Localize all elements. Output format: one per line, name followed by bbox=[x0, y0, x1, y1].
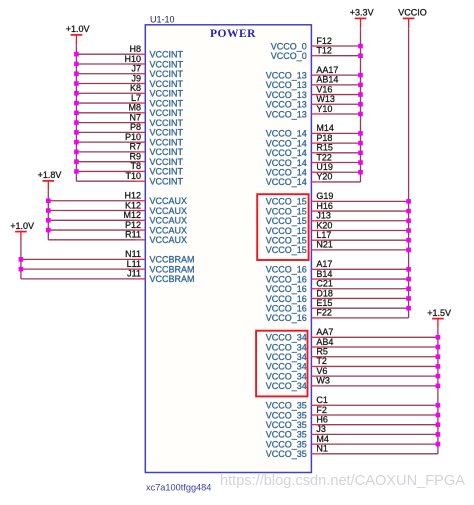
junction node H6 bbox=[436, 422, 441, 427]
junction node V16 bbox=[358, 92, 363, 97]
pin F22 / VCCO_16 wire bbox=[266, 308, 409, 324]
svg-text:VCCINT: VCCINT bbox=[150, 59, 184, 69]
svg-text:VCCAUX: VCCAUX bbox=[150, 225, 188, 235]
pin H12 / VCCAUX wire bbox=[48, 191, 187, 207]
pin K20 / VCCO_15 wire bbox=[266, 220, 409, 236]
svg-text:VCCO_34: VCCO_34 bbox=[266, 371, 307, 381]
svg-text:Y20: Y20 bbox=[316, 172, 332, 182]
svg-text:VCCO_13: VCCO_13 bbox=[266, 90, 307, 100]
junction node C21 bbox=[406, 286, 411, 291]
junction node R7 bbox=[74, 150, 79, 155]
svg-text:U1-10: U1-10 bbox=[150, 15, 175, 25]
svg-text:VCCINT: VCCINT bbox=[150, 69, 184, 79]
svg-text:H8: H8 bbox=[129, 44, 141, 54]
svg-text:VCCO_35: VCCO_35 bbox=[266, 439, 307, 449]
svg-text:AA7: AA7 bbox=[316, 327, 333, 337]
pin P10 / VCCINT wire bbox=[76, 132, 183, 148]
svg-text:L11: L11 bbox=[127, 259, 141, 269]
svg-text:VCCO_35: VCCO_35 bbox=[266, 449, 307, 459]
svg-text:VCCAUX: VCCAUX bbox=[150, 216, 188, 226]
svg-text:VCCO_35: VCCO_35 bbox=[266, 410, 307, 420]
svg-text:VCCO_16: VCCO_16 bbox=[266, 294, 307, 304]
svg-text:VCCO_0: VCCO_0 bbox=[271, 41, 307, 51]
pin T10 / VCCINT wire bbox=[76, 171, 183, 187]
pin AB4 / VCCO_34 wire bbox=[266, 337, 438, 353]
svg-text:M12: M12 bbox=[123, 210, 141, 220]
svg-text:+1.0V: +1.0V bbox=[66, 24, 90, 34]
pin J13 / VCCO_15 wire bbox=[266, 211, 409, 227]
svg-text:P8: P8 bbox=[130, 122, 141, 132]
svg-text:K20: K20 bbox=[316, 220, 332, 230]
svg-text:POWER: POWER bbox=[210, 28, 256, 40]
pin F2 / VCCO_35 wire bbox=[266, 405, 438, 421]
svg-text:+3.3V: +3.3V bbox=[350, 8, 374, 18]
pin R9 / VCCINT wire bbox=[76, 151, 183, 167]
svg-text:Y10: Y10 bbox=[316, 104, 332, 114]
junction node B14 bbox=[406, 277, 411, 282]
pin A17 / VCCO_16 wire bbox=[266, 259, 409, 275]
junction node F12 bbox=[358, 44, 363, 49]
pin R15 / VCCO_14 wire bbox=[266, 143, 361, 159]
junction node G19 bbox=[406, 199, 411, 204]
svg-text:T10: T10 bbox=[125, 171, 141, 181]
junction node Y10 bbox=[358, 112, 363, 117]
junction node J3 bbox=[436, 432, 441, 437]
pin V16 / VCCO_13 wire bbox=[266, 84, 361, 100]
junction node J13 bbox=[406, 218, 411, 223]
svg-text:AA17: AA17 bbox=[316, 65, 338, 75]
svg-text:V16: V16 bbox=[316, 84, 332, 94]
svg-text:R15: R15 bbox=[316, 143, 333, 153]
pin C21 / VCCO_16 wire bbox=[266, 279, 409, 295]
junction node A17 bbox=[406, 267, 411, 272]
svg-text:F22: F22 bbox=[316, 308, 332, 318]
svg-text:VCCO_15: VCCO_15 bbox=[266, 226, 307, 236]
pin R5 / VCCO_34 wire bbox=[266, 347, 438, 363]
pin H6 / VCCO_35 wire bbox=[266, 414, 438, 430]
svg-text:F2: F2 bbox=[316, 405, 327, 415]
svg-text:VCCO_35: VCCO_35 bbox=[266, 401, 307, 411]
junction node E15 bbox=[406, 306, 411, 311]
pin T22 / VCCO_14 wire bbox=[266, 152, 361, 168]
pin N21 / VCCO_15 wire bbox=[266, 240, 409, 256]
svg-text:N7: N7 bbox=[129, 112, 141, 122]
svg-text:+1.0V: +1.0V bbox=[10, 221, 34, 231]
net rail +1.0V vertical wire bbox=[75, 45, 77, 182]
title POWER bbox=[210, 28, 256, 40]
pin H16 / VCCO_15 wire bbox=[266, 201, 409, 217]
svg-text:VCCO_16: VCCO_16 bbox=[266, 265, 307, 275]
svg-text:https://blog.csdn.net/CAOXUN_F: https://blog.csdn.net/CAOXUN_FPGA bbox=[220, 473, 465, 489]
junction node C1 bbox=[436, 403, 441, 408]
pin N7 / VCCINT wire bbox=[76, 112, 183, 128]
svg-text:VCCO_16: VCCO_16 bbox=[266, 313, 307, 323]
svg-text:+1.5V: +1.5V bbox=[427, 308, 451, 318]
pin U19 / VCCO_14 wire bbox=[266, 162, 361, 178]
junction node H8 bbox=[74, 52, 79, 57]
pin T12 / VCCO_0 wire bbox=[271, 46, 361, 62]
pin Y10 / VCCO_13 wire bbox=[266, 104, 361, 120]
junction node H10 bbox=[74, 62, 79, 67]
svg-text:VCCO_14: VCCO_14 bbox=[266, 129, 307, 139]
svg-text:VCCO_0: VCCO_0 bbox=[271, 51, 307, 61]
IC U1 body (POWER section, xc7a100tfgg484) bbox=[145, 25, 311, 473]
power +1.5V bbox=[427, 308, 451, 329]
svg-text:J13: J13 bbox=[316, 211, 331, 221]
junction node W13 bbox=[358, 102, 363, 107]
pin J7 / VCCINT wire bbox=[76, 64, 183, 80]
svg-text:N11: N11 bbox=[125, 249, 141, 259]
svg-text:VCCIO: VCCIO bbox=[398, 8, 427, 18]
watermark bbox=[220, 473, 465, 489]
svg-text:T12: T12 bbox=[316, 46, 332, 56]
svg-text:VCCO_34: VCCO_34 bbox=[266, 352, 307, 362]
junction node M14 bbox=[358, 131, 363, 136]
svg-text:T2: T2 bbox=[316, 356, 327, 366]
net rail VCCIO vertical wire bbox=[408, 28, 410, 318]
pin T2 / VCCO_34 wire bbox=[266, 356, 438, 372]
pin AA17 / VCCO_13 wire bbox=[266, 65, 361, 81]
svg-text:K8: K8 bbox=[130, 83, 141, 93]
pin B14 / VCCO_16 wire bbox=[266, 269, 409, 285]
designator U1-10 bbox=[150, 15, 175, 25]
svg-text:VCCINT: VCCINT bbox=[150, 177, 184, 187]
junction node L7 bbox=[74, 101, 79, 106]
power +1.0V (VCCBRAM) bbox=[10, 221, 34, 242]
svg-text:+1.8V: +1.8V bbox=[38, 170, 62, 180]
svg-text:VCCO_16: VCCO_16 bbox=[266, 284, 307, 294]
svg-text:VCCO_14: VCCO_14 bbox=[266, 158, 307, 168]
svg-text:A17: A17 bbox=[316, 259, 332, 269]
pin J9 / VCCINT wire bbox=[76, 73, 183, 89]
junction node L11 bbox=[19, 267, 24, 272]
highlight box VCCO_34 bbox=[256, 331, 307, 397]
svg-text:VCCINT: VCCINT bbox=[150, 50, 184, 60]
svg-text:VCCO_15: VCCO_15 bbox=[266, 206, 307, 216]
pin C1 / VCCO_35 wire bbox=[266, 395, 438, 411]
svg-text:VCCO_16: VCCO_16 bbox=[266, 303, 307, 313]
svg-text:C1: C1 bbox=[316, 395, 328, 405]
pin R7 / VCCINT wire bbox=[76, 142, 183, 158]
pin H8 / VCCINT wire bbox=[76, 44, 183, 60]
svg-text:H12: H12 bbox=[124, 191, 141, 201]
svg-text:VCCO_35: VCCO_35 bbox=[266, 430, 307, 440]
junction node AA7 bbox=[436, 335, 441, 340]
svg-text:U19: U19 bbox=[316, 162, 333, 172]
junction node T12 bbox=[358, 53, 363, 58]
pin W3 / VCCO_34 wire bbox=[266, 376, 438, 392]
svg-text:T22: T22 bbox=[316, 152, 332, 162]
pin L11 / VCCBRAM wire bbox=[21, 259, 195, 275]
pin M8 / VCCINT wire bbox=[76, 103, 183, 119]
svg-text:VCCINT: VCCINT bbox=[150, 79, 184, 89]
net rail +1.0V VCCBRAM vertical wire bbox=[20, 241, 22, 279]
svg-text:W3: W3 bbox=[316, 376, 330, 386]
svg-text:F12: F12 bbox=[316, 36, 332, 46]
net rail +3.3V vertical wire bbox=[360, 28, 362, 182]
junction node K8 bbox=[74, 91, 79, 96]
pin E15 / VCCO_16 wire bbox=[266, 298, 409, 314]
svg-text:T8: T8 bbox=[130, 161, 141, 171]
svg-text:W13: W13 bbox=[316, 94, 335, 104]
svg-text:VCCO_34: VCCO_34 bbox=[266, 342, 307, 352]
pin T8 / VCCINT wire bbox=[76, 161, 183, 177]
svg-text:AB4: AB4 bbox=[316, 337, 333, 347]
junction node H12 bbox=[46, 198, 51, 203]
svg-text:VCCINT: VCCINT bbox=[150, 108, 184, 118]
highlight box VCCO_15 bbox=[257, 194, 308, 260]
junction node M4 bbox=[436, 442, 441, 447]
pin K8 / VCCINT wire bbox=[76, 83, 183, 99]
svg-text:V6: V6 bbox=[316, 366, 327, 376]
svg-text:B14: B14 bbox=[316, 269, 332, 279]
junction node T2 bbox=[436, 364, 441, 369]
junction node V6 bbox=[436, 374, 441, 379]
svg-text:VCCAUX: VCCAUX bbox=[150, 235, 188, 245]
pin N11 / VCCBRAM wire bbox=[21, 249, 195, 265]
svg-text:H10: H10 bbox=[124, 54, 141, 64]
pin G19 / VCCO_15 wire bbox=[266, 191, 409, 207]
svg-text:C21: C21 bbox=[316, 279, 333, 289]
junction node AA17 bbox=[358, 73, 363, 78]
pin P12 / VCCAUX wire bbox=[48, 220, 187, 236]
power +1.8V (VCCAUX) bbox=[38, 170, 62, 191]
svg-text:VCCBRAM: VCCBRAM bbox=[150, 274, 195, 284]
pin P8 / VCCINT wire bbox=[76, 122, 183, 138]
pin F12 / VCCO_0 wire bbox=[271, 36, 361, 52]
svg-text:N1: N1 bbox=[316, 444, 328, 454]
svg-text:E15: E15 bbox=[316, 298, 332, 308]
svg-text:VCCINT: VCCINT bbox=[150, 89, 184, 99]
pin M14 / VCCO_14 wire bbox=[266, 123, 361, 139]
svg-text:VCCO_34: VCCO_34 bbox=[266, 362, 307, 372]
svg-text:VCCO_35: VCCO_35 bbox=[266, 420, 307, 430]
junction node K12 bbox=[46, 208, 51, 213]
value xc7a100tfgg484 bbox=[146, 483, 211, 493]
junction node N11 bbox=[19, 257, 24, 262]
junction node N21 bbox=[406, 248, 411, 253]
svg-text:M8: M8 bbox=[128, 103, 141, 113]
svg-text:xc7a100tfgg484: xc7a100tfgg484 bbox=[146, 483, 211, 493]
svg-text:VCCO_13: VCCO_13 bbox=[266, 100, 307, 110]
svg-text:VCCO_15: VCCO_15 bbox=[266, 245, 307, 255]
svg-text:P12: P12 bbox=[125, 220, 141, 230]
svg-text:VCCBRAM: VCCBRAM bbox=[150, 255, 195, 265]
pin L7 / VCCINT wire bbox=[76, 93, 183, 109]
junction node P12 bbox=[46, 228, 51, 233]
junction node D18 bbox=[406, 296, 411, 301]
svg-text:VCCO_15: VCCO_15 bbox=[266, 197, 307, 207]
svg-text:VCCO_15: VCCO_15 bbox=[266, 236, 307, 246]
junction node N7 bbox=[74, 120, 79, 125]
junction node P10 bbox=[74, 140, 79, 145]
junction node K20 bbox=[406, 228, 411, 233]
junction node P18 bbox=[358, 141, 363, 146]
junction node U19 bbox=[358, 170, 363, 175]
junction node T22 bbox=[358, 160, 363, 165]
svg-text:VCCINT: VCCINT bbox=[150, 118, 184, 128]
pin W13 / VCCO_13 wire bbox=[266, 94, 361, 110]
power VCCIO bbox=[398, 8, 427, 29]
pin D18 / VCCO_16 wire bbox=[266, 288, 409, 304]
svg-text:VCCO_14: VCCO_14 bbox=[266, 177, 307, 187]
svg-text:P18: P18 bbox=[316, 133, 332, 143]
junction node AB4 bbox=[436, 345, 441, 350]
svg-text:J11: J11 bbox=[127, 269, 141, 279]
svg-text:VCCAUX: VCCAUX bbox=[150, 196, 188, 206]
junction node W3 bbox=[436, 384, 441, 389]
svg-text:VCCO_13: VCCO_13 bbox=[266, 109, 307, 119]
svg-text:VCCO_14: VCCO_14 bbox=[266, 148, 307, 158]
pin R11 / VCCAUX wire bbox=[48, 230, 187, 246]
svg-text:VCCO_34: VCCO_34 bbox=[266, 333, 307, 343]
svg-text:M14: M14 bbox=[316, 123, 334, 133]
svg-text:J7: J7 bbox=[131, 64, 141, 74]
svg-text:P10: P10 bbox=[125, 132, 141, 142]
svg-text:L17: L17 bbox=[316, 230, 331, 240]
svg-text:R9: R9 bbox=[129, 151, 141, 161]
svg-text:VCCINT: VCCINT bbox=[150, 128, 184, 138]
svg-text:VCCINT: VCCINT bbox=[150, 147, 184, 157]
pin J3 / VCCO_35 wire bbox=[266, 424, 438, 440]
svg-text:R11: R11 bbox=[125, 230, 141, 240]
junction node F2 bbox=[436, 413, 441, 418]
svg-text:J9: J9 bbox=[131, 73, 141, 83]
svg-text:L7: L7 bbox=[131, 93, 141, 103]
svg-text:K12: K12 bbox=[125, 200, 141, 210]
pin P18 / VCCO_14 wire bbox=[266, 133, 361, 149]
svg-text:R5: R5 bbox=[316, 347, 328, 357]
junction node AB14 bbox=[358, 83, 363, 88]
svg-text:VCCBRAM: VCCBRAM bbox=[150, 264, 195, 274]
svg-text:VCCO_15: VCCO_15 bbox=[266, 216, 307, 226]
svg-text:VCCO_14: VCCO_14 bbox=[266, 168, 307, 178]
svg-text:H6: H6 bbox=[316, 414, 328, 424]
pin M12 / VCCAUX wire bbox=[48, 210, 187, 226]
pin M4 / VCCO_35 wire bbox=[266, 434, 438, 450]
pin N1 / VCCO_35 wire bbox=[266, 444, 438, 460]
svg-text:H16: H16 bbox=[316, 201, 333, 211]
pin AA7 / VCCO_34 wire bbox=[266, 327, 438, 343]
pin AB14 / VCCO_13 wire bbox=[266, 75, 361, 91]
pin V6 / VCCO_34 wire bbox=[266, 366, 438, 382]
svg-text:VCCINT: VCCINT bbox=[150, 157, 184, 167]
svg-text:VCCO_34: VCCO_34 bbox=[266, 381, 307, 391]
pin Y20 / VCCO_14 wire bbox=[266, 172, 361, 188]
junction node R9 bbox=[74, 159, 79, 164]
svg-text:VCCAUX: VCCAUX bbox=[150, 206, 188, 216]
junction node J7 bbox=[74, 71, 79, 76]
pin H10 / VCCINT wire bbox=[76, 54, 183, 69]
svg-text:G19: G19 bbox=[316, 191, 333, 201]
power +1.0V (VCCINT) bbox=[66, 24, 90, 45]
pin L17 / VCCO_15 wire bbox=[266, 230, 409, 246]
junction node M12 bbox=[46, 218, 51, 223]
svg-text:D18: D18 bbox=[316, 288, 333, 298]
svg-text:R7: R7 bbox=[129, 142, 141, 152]
svg-text:VCCO_16: VCCO_16 bbox=[266, 274, 307, 284]
svg-text:VCCO_13: VCCO_13 bbox=[266, 80, 307, 90]
pin J11 / VCCBRAM wire bbox=[21, 269, 195, 285]
svg-text:VCCINT: VCCINT bbox=[150, 98, 184, 108]
net rail +1.5V vertical wire bbox=[437, 328, 439, 453]
svg-text:AB14: AB14 bbox=[316, 75, 338, 85]
svg-text:VCCINT: VCCINT bbox=[150, 137, 184, 147]
pin K12 / VCCAUX wire bbox=[48, 200, 187, 216]
svg-text:N21: N21 bbox=[316, 240, 333, 250]
svg-text:J3: J3 bbox=[316, 424, 326, 434]
junction node R15 bbox=[358, 151, 363, 156]
svg-text:M4: M4 bbox=[316, 434, 329, 444]
power +3.3V bbox=[350, 8, 374, 29]
junction node T8 bbox=[74, 169, 79, 174]
net rail +1.8V vertical wire bbox=[47, 191, 49, 240]
svg-text:VCCO_14: VCCO_14 bbox=[266, 138, 307, 148]
junction node J9 bbox=[74, 81, 79, 86]
junction node P8 bbox=[74, 130, 79, 135]
junction node H16 bbox=[406, 209, 411, 214]
svg-text:VCCINT: VCCINT bbox=[150, 167, 184, 177]
svg-text:VCCO_13: VCCO_13 bbox=[266, 70, 307, 80]
junction node L17 bbox=[406, 238, 411, 243]
junction node M8 bbox=[74, 111, 79, 116]
junction node R5 bbox=[436, 354, 441, 359]
